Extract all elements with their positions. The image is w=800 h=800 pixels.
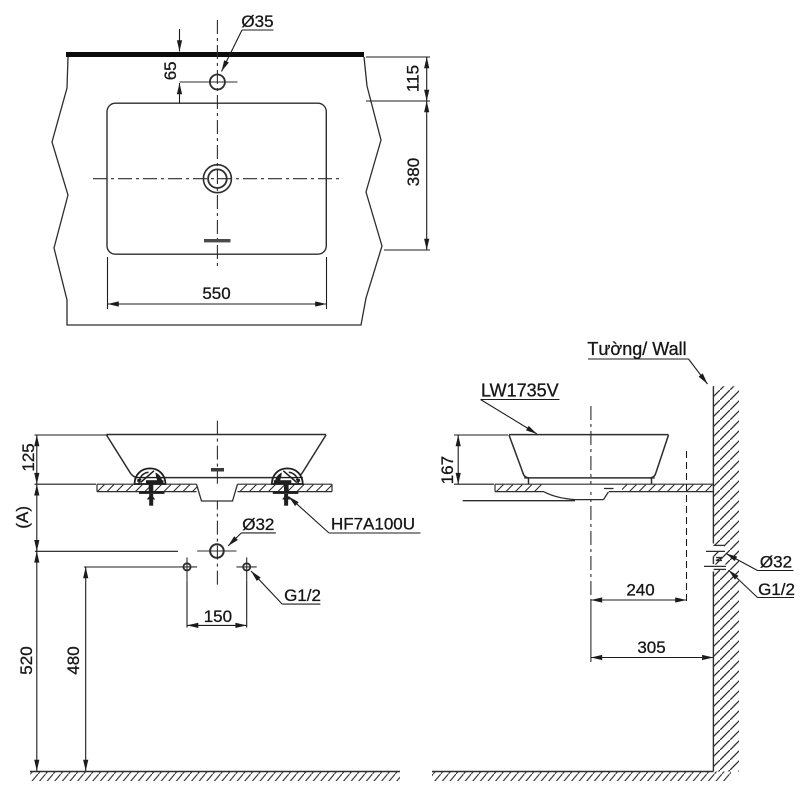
- svg-text:167: 167: [438, 456, 457, 484]
- svg-text:Ø32: Ø32: [760, 553, 792, 572]
- svg-text:LW1735V: LW1735V: [481, 381, 559, 401]
- svg-text:480: 480: [64, 646, 83, 674]
- svg-text:115: 115: [404, 65, 423, 92]
- svg-text:240: 240: [626, 581, 654, 600]
- svg-text:(A): (A): [13, 506, 32, 529]
- svg-text:125: 125: [19, 443, 38, 471]
- svg-text:550: 550: [202, 284, 230, 303]
- svg-text:HF7A100U: HF7A100U: [331, 515, 415, 534]
- svg-text:Ø35: Ø35: [241, 12, 273, 31]
- svg-text:305: 305: [637, 638, 665, 657]
- svg-text:G1/2: G1/2: [284, 586, 321, 605]
- svg-text:380: 380: [404, 158, 423, 186]
- svg-text:150: 150: [204, 607, 232, 626]
- svg-text:G1/2: G1/2: [758, 580, 795, 599]
- svg-text:520: 520: [17, 646, 36, 674]
- svg-text:65: 65: [161, 61, 180, 80]
- svg-text:Tường/ Wall: Tường/ Wall: [587, 339, 686, 359]
- svg-text:Ø32: Ø32: [242, 515, 274, 534]
